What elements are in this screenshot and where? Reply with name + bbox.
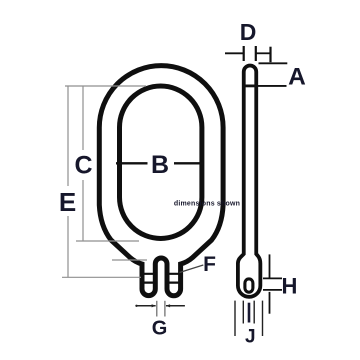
svg-text:B: B (151, 151, 169, 179)
svg-text:F: F (203, 253, 216, 276)
svg-text:E: E (59, 187, 76, 217)
svg-text:J: J (245, 327, 256, 348)
svg-text:A: A (288, 64, 306, 91)
svg-text:G: G (152, 318, 168, 340)
svg-text:dimensions shown: dimensions shown (174, 201, 240, 208)
svg-text:D: D (240, 19, 257, 45)
svg-text:H: H (282, 274, 298, 299)
svg-text:C: C (74, 152, 92, 180)
